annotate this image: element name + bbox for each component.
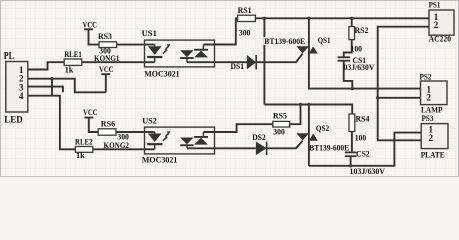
svg-text:AC220: AC220 xyxy=(429,33,452,43)
svg-text:4: 4 xyxy=(19,91,24,101)
svg-text:RLE2: RLE2 xyxy=(75,136,93,146)
svg-text:BT139-600E: BT139-600E xyxy=(309,142,349,152)
svg-text:300: 300 xyxy=(273,126,285,136)
svg-text:RS2: RS2 xyxy=(355,25,369,35)
svg-text:RS6: RS6 xyxy=(101,119,116,129)
svg-text:1k: 1k xyxy=(76,150,85,160)
svg-text:LED: LED xyxy=(4,114,23,124)
svg-text:RS5: RS5 xyxy=(273,111,287,121)
svg-text:PS1: PS1 xyxy=(429,0,441,10)
svg-text:KONG1: KONG1 xyxy=(94,53,120,63)
svg-text:BT139-600E: BT139-600E xyxy=(264,36,305,46)
svg-text:1k: 1k xyxy=(65,65,74,75)
svg-text:QS1: QS1 xyxy=(318,35,331,45)
svg-text:RLE1: RLE1 xyxy=(64,49,82,59)
svg-text:PL: PL xyxy=(4,51,14,62)
svg-text:RS3: RS3 xyxy=(98,31,112,41)
svg-text:PS3: PS3 xyxy=(422,113,434,123)
svg-text:RS1: RS1 xyxy=(238,5,252,15)
svg-text:MOC3021: MOC3021 xyxy=(142,155,178,165)
svg-text:DS1: DS1 xyxy=(231,61,245,71)
svg-text:RS4: RS4 xyxy=(356,113,371,123)
svg-text:2: 2 xyxy=(434,20,439,30)
svg-text:PS2: PS2 xyxy=(420,72,432,82)
svg-text:2: 2 xyxy=(429,133,434,143)
svg-text:PLATE: PLATE xyxy=(421,150,445,160)
svg-text:US2: US2 xyxy=(142,115,157,125)
svg-text:VCC: VCC xyxy=(99,64,114,74)
svg-text:DS2: DS2 xyxy=(252,132,266,142)
svg-text:300: 300 xyxy=(239,27,251,37)
svg-text:100: 100 xyxy=(351,43,363,53)
svg-text:03J/630V: 03J/630V xyxy=(344,62,376,72)
svg-text:CS2: CS2 xyxy=(356,148,370,158)
svg-text:VCC: VCC xyxy=(83,107,98,117)
svg-text:VCC: VCC xyxy=(83,19,98,29)
svg-text:KONG2: KONG2 xyxy=(104,140,130,150)
svg-text:MOC3021: MOC3021 xyxy=(144,68,180,78)
svg-text:103J/630V: 103J/630V xyxy=(350,166,386,176)
svg-text:100: 100 xyxy=(355,132,367,142)
svg-text:US1: US1 xyxy=(142,28,157,38)
svg-text:2: 2 xyxy=(427,93,432,103)
svg-text:QS2: QS2 xyxy=(316,123,329,133)
